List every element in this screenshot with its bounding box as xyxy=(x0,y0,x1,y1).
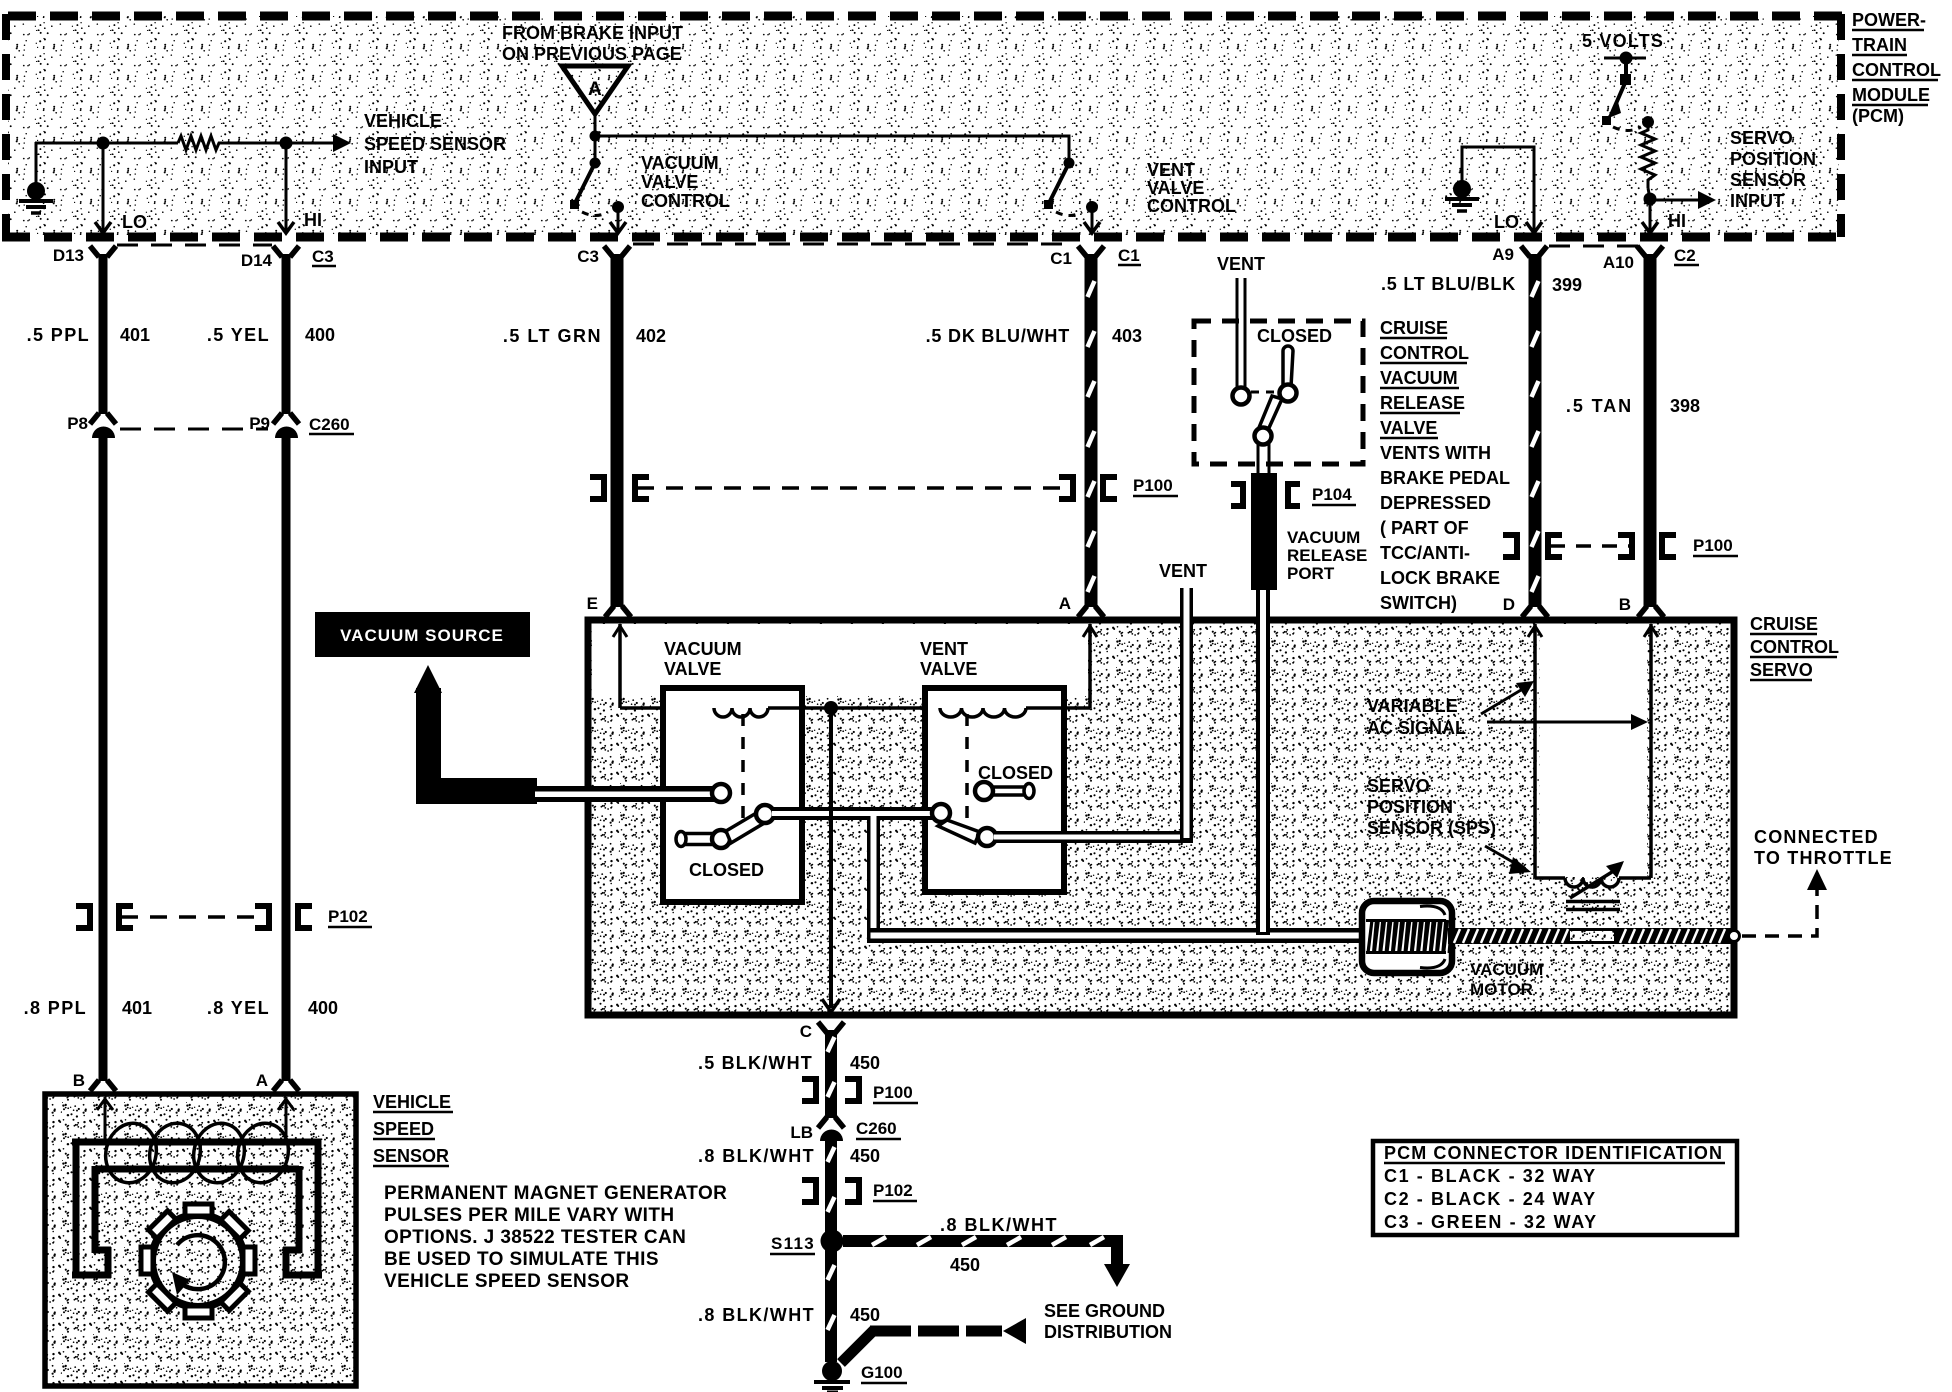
svg-text:CONNECTED: CONNECTED xyxy=(1754,827,1879,847)
label .5 TAN 398 xyxy=(1566,396,1700,416)
svg-text:P102: P102 xyxy=(328,907,368,926)
svg-text:A: A xyxy=(588,79,602,100)
terminal D (servo) xyxy=(1503,595,1548,617)
node (VSS LO junction) xyxy=(97,137,110,150)
svg-text:VALVE: VALVE xyxy=(664,659,721,679)
connector C260 (450) LB xyxy=(790,1117,901,1142)
svg-text:MOTOR: MOTOR xyxy=(1470,980,1533,999)
svg-text:SENSOR: SENSOR xyxy=(373,1146,449,1166)
connector P102 left pair xyxy=(76,906,372,928)
vent tube (release valve) xyxy=(1233,278,1250,405)
label VARIABLE AC SIGNAL xyxy=(1367,696,1466,738)
svg-text:LOCK BRAKE: LOCK BRAKE xyxy=(1380,568,1500,588)
arrow SPS to potentiometer xyxy=(1485,846,1531,874)
wire branch down xyxy=(594,136,597,160)
wire 401 lower (.8 PPL) xyxy=(99,437,108,1081)
svg-text:SPEED: SPEED xyxy=(373,1119,434,1139)
svg-text:VALVE: VALVE xyxy=(1147,178,1204,198)
label SEE GROUND DISTRIBUTION xyxy=(1044,1301,1172,1342)
label .8 BLK/WHT 450 (upper) xyxy=(698,1146,880,1166)
label CRUISE CONTROL SERVO xyxy=(1750,614,1839,680)
svg-text:B: B xyxy=(73,1071,85,1090)
arrowhead HI xyxy=(278,222,294,233)
svg-text:.5 TAN: .5 TAN xyxy=(1566,396,1633,416)
svg-text:C3: C3 xyxy=(577,247,599,266)
svg-text:LB: LB xyxy=(790,1123,813,1142)
see ground distribution dashed wire xyxy=(841,1318,1026,1363)
wire B internal (VSS) xyxy=(97,1097,113,1140)
arrowhead C1 out xyxy=(1084,222,1100,233)
switch vacuum valve control xyxy=(570,158,624,216)
vacuum valve plunger line xyxy=(741,714,745,828)
vacuum valve switch xyxy=(676,805,774,848)
svg-text:402: 402 xyxy=(636,326,666,346)
wire C over tube crossing xyxy=(829,800,833,832)
wire 400 lower (.8 YEL) xyxy=(282,437,291,1081)
svg-text:P102: P102 xyxy=(873,1181,913,1200)
wire 450 horizontal (.8 BLK/WHT striped) xyxy=(843,1237,1130,1287)
svg-text:.8 BLK/WHT: .8 BLK/WHT xyxy=(698,1146,815,1166)
svg-text:401: 401 xyxy=(122,998,152,1018)
label .8 YEL 400 xyxy=(207,998,338,1018)
vacuum source label box xyxy=(315,612,530,657)
connector link P8-P9 xyxy=(120,428,268,431)
PCM module box (Powertrain Control Module) xyxy=(2,14,1848,237)
connector link A9-A10 xyxy=(1549,245,1638,248)
svg-text:RELEASE: RELEASE xyxy=(1380,393,1465,413)
svg-text:AC SIGNAL: AC SIGNAL xyxy=(1367,718,1466,738)
svg-text:LO: LO xyxy=(1494,212,1519,232)
cruise control servo box xyxy=(588,620,1734,1015)
svg-text:VEHICLE: VEHICLE xyxy=(364,111,442,131)
svg-text:C260: C260 xyxy=(309,415,350,434)
svg-text:D: D xyxy=(1503,595,1515,614)
svg-text:VACUUM: VACUUM xyxy=(664,639,742,659)
svg-text:CRUISE: CRUISE xyxy=(1380,318,1448,338)
label FROM BRAKE INPUT ON PREVIOUS PAGE xyxy=(502,23,683,64)
PCM connector identification box xyxy=(1373,1141,1737,1235)
svg-text:C1: C1 xyxy=(1050,249,1072,268)
svg-text:CONTROL: CONTROL xyxy=(1750,637,1839,657)
connector link C3-C1 xyxy=(633,243,1075,246)
svg-text:.5 PPL: .5 PPL xyxy=(27,325,90,345)
svg-text:SERVO: SERVO xyxy=(1367,776,1430,796)
svg-text:VALVE: VALVE xyxy=(641,172,698,192)
svg-text:PCM CONNECTOR IDENTIFICATION: PCM CONNECTOR IDENTIFICATION xyxy=(1384,1143,1723,1163)
connector P100 (450) xyxy=(802,1079,918,1103)
svg-text:OPTIONS. J 38522 TESTER CAN: OPTIONS. J 38522 TESTER CAN xyxy=(384,1227,686,1248)
svg-text:399: 399 xyxy=(1552,275,1582,295)
wire HI (right) down xyxy=(1649,200,1652,231)
svg-text:450: 450 xyxy=(850,1053,880,1073)
VSS magnet yoke xyxy=(72,1139,322,1278)
wire node to arrow xyxy=(286,142,336,145)
wire node to resistor xyxy=(103,142,178,145)
svg-text:.5 LT BLU/BLK: .5 LT BLU/BLK xyxy=(1381,274,1516,294)
wire ground to LO right xyxy=(1462,147,1534,231)
connector P8 xyxy=(67,413,116,438)
svg-text:398: 398 xyxy=(1670,396,1700,416)
tube release port to motor line xyxy=(1256,590,1270,935)
arrow SPS input label xyxy=(1698,191,1716,209)
svg-text:HI: HI xyxy=(1668,211,1686,231)
5V supply rail xyxy=(1604,57,1646,60)
label CRUISE CONTROL VACUUM RELEASE VALVE description xyxy=(1380,318,1510,613)
svg-text:SEE GROUND: SEE GROUND xyxy=(1044,1301,1165,1321)
wire node to vent coil xyxy=(831,706,940,710)
terminal B (VSS) xyxy=(73,1071,116,1091)
svg-text:C3: C3 xyxy=(312,247,334,266)
wire 403 (.5 DK BLU/WHT striped) xyxy=(1088,254,1095,607)
svg-text:SERVO: SERVO xyxy=(1730,128,1793,148)
svg-text:CRUISE: CRUISE xyxy=(1750,614,1818,634)
svg-text:450: 450 xyxy=(950,1255,980,1275)
terminal A (servo) xyxy=(1059,594,1104,617)
svg-text:HI: HI xyxy=(304,210,322,230)
svg-text:450: 450 xyxy=(850,1305,880,1325)
svg-text:VENT: VENT xyxy=(1159,561,1207,581)
svg-text:C260: C260 xyxy=(856,1119,897,1138)
svg-text:CLOSED: CLOSED xyxy=(1257,326,1332,346)
svg-text:VEHICLE SPEED SENSOR: VEHICLE SPEED SENSOR xyxy=(384,1271,630,1292)
vehicle speed sensor box xyxy=(45,1094,356,1386)
wire HI down xyxy=(285,143,288,231)
svg-text:POSITION: POSITION xyxy=(1730,149,1816,169)
wire E internal xyxy=(613,624,714,708)
svg-text:( PART OF: ( PART OF xyxy=(1380,518,1469,538)
svg-text:C1 - BLACK - 32 WAY: C1 - BLACK - 32 WAY xyxy=(1384,1166,1597,1186)
svg-text:D14: D14 xyxy=(241,251,273,270)
svg-text:S113: S113 xyxy=(771,1234,815,1253)
terminal E xyxy=(587,594,631,617)
label .8 PPL 401 xyxy=(24,998,152,1018)
terminal A10 / C2 xyxy=(1603,246,1699,272)
label VACUUM VALVE (solenoid) xyxy=(664,639,742,679)
svg-text:VENT: VENT xyxy=(920,639,968,659)
arrowhead LO xyxy=(95,222,111,233)
terminal C (servo) xyxy=(800,1022,844,1041)
wire 402 (.5 LT GRN) xyxy=(611,254,624,607)
svg-text:P100: P100 xyxy=(873,1083,913,1102)
arrowhead D internal xyxy=(1528,626,1542,637)
tube branch to motor xyxy=(867,812,1365,943)
label VACUUM VALVE CONTROL xyxy=(641,153,730,211)
vent valve box xyxy=(925,688,1064,892)
arrowhead B internal xyxy=(1644,626,1658,637)
vacuum motor xyxy=(1362,901,1452,973)
svg-text:SERVO: SERVO xyxy=(1750,660,1813,680)
svg-text:C1: C1 xyxy=(1118,246,1140,265)
svg-text:INPUT: INPUT xyxy=(1730,191,1784,211)
throttle rod xyxy=(1448,928,1740,944)
svg-text:MODULE: MODULE xyxy=(1852,85,1930,105)
tube vent valve to vent outlet xyxy=(994,831,1192,843)
svg-text:BE USED TO SIMULATE THIS: BE USED TO SIMULATE THIS xyxy=(384,1249,659,1270)
arrowhead C3 out xyxy=(610,222,626,233)
svg-text:400: 400 xyxy=(308,998,338,1018)
splice S113 xyxy=(770,1230,844,1255)
ground G100 xyxy=(814,1361,907,1392)
svg-text:C2 - BLACK - 24 WAY: C2 - BLACK - 24 WAY xyxy=(1384,1189,1597,1209)
terminal C1 (vent valve control) xyxy=(1050,246,1141,268)
servo position sensor potentiometer xyxy=(1535,861,1651,910)
wire A internal xyxy=(1026,624,1097,708)
label .5 LT GRN 402 xyxy=(503,326,666,346)
svg-text:DISTRIBUTION: DISTRIBUTION xyxy=(1044,1322,1172,1342)
wire 450 seg1 (.5 BLK/WHT striped) xyxy=(828,1030,835,1118)
svg-text:A9: A9 xyxy=(1492,245,1514,264)
svg-text:B: B xyxy=(1619,595,1631,614)
arrowhead HI right xyxy=(1642,222,1658,233)
svg-text:INPUT: INPUT xyxy=(364,157,418,177)
wire 398 (.5 TAN) xyxy=(1644,254,1657,607)
svg-text:P9: P9 xyxy=(249,414,270,433)
wire ground to node xyxy=(35,142,100,145)
vent valve coil xyxy=(940,708,1026,717)
svg-text:LO: LO xyxy=(122,212,147,232)
wire 401 upper (.5 PPL) xyxy=(99,254,108,414)
wire resistor to node xyxy=(1648,188,1650,199)
wire branch to vent valve control xyxy=(595,136,1069,160)
wire vacuum valve contact down xyxy=(617,210,620,231)
connector P102 (450) xyxy=(802,1180,917,1202)
connector P100 (402-403) xyxy=(590,476,1178,499)
svg-text:VACUUM: VACUUM xyxy=(1380,368,1458,388)
terminal A (VSS) xyxy=(256,1071,299,1091)
wire node to SPS arrow xyxy=(1650,199,1700,202)
tube release valve to port xyxy=(1258,443,1269,474)
svg-text:(PCM): (PCM) xyxy=(1852,106,1904,126)
switch 5V to SPS xyxy=(1602,58,1654,131)
label VEHICLE SPEED SENSOR xyxy=(373,1092,453,1166)
cruise control vacuum release valve box xyxy=(1194,321,1363,464)
wire vent valve contact down xyxy=(1091,210,1094,231)
svg-text:VALVE: VALVE xyxy=(920,659,977,679)
connector link D13-D14 xyxy=(117,244,272,247)
node (VSS HI junction) xyxy=(280,137,293,150)
svg-text:RELEASE: RELEASE xyxy=(1287,546,1367,565)
terminal B (servo) xyxy=(1619,595,1664,617)
svg-text:VENT: VENT xyxy=(1217,254,1265,274)
svg-text:A: A xyxy=(1059,594,1071,613)
svg-text:VACUUM: VACUUM xyxy=(641,153,719,173)
svg-text:5 VOLTS: 5 VOLTS xyxy=(1582,31,1664,51)
vent tube (servo) xyxy=(1180,588,1193,843)
tube vacuum valve to vent valve xyxy=(772,807,934,820)
release valve switch xyxy=(1251,346,1297,445)
VSS pickup coil xyxy=(99,1118,294,1188)
ground (PCM left internal) xyxy=(19,142,53,213)
label CONNECTED TO THROTTLE xyxy=(1754,827,1893,868)
label SERVO POSITION SENSOR INPUT xyxy=(1730,128,1816,211)
off-page triangle A xyxy=(562,66,628,114)
svg-text:SPEED SENSOR: SPEED SENSOR xyxy=(364,134,506,154)
label SERVO POSITION SENSOR (SPS) xyxy=(1367,776,1496,838)
connector P9 / C260 xyxy=(249,413,354,438)
vent valve switch xyxy=(932,782,1034,846)
wire coil to node xyxy=(768,706,831,710)
terminal C3 (vacuum valve control) xyxy=(577,246,630,266)
label .5 BLK/WHT 450 xyxy=(698,1053,880,1073)
wire B internal xyxy=(1649,624,1653,878)
svg-text:.5 LT GRN: .5 LT GRN xyxy=(503,326,602,346)
wire 450 seg3 (.8 BLK/WHT striped) xyxy=(828,1250,835,1362)
node SPS input xyxy=(1644,193,1657,206)
connector P100 (399-398) xyxy=(1503,535,1738,557)
svg-text:VEHICLE: VEHICLE xyxy=(373,1092,451,1112)
svg-text:P100: P100 xyxy=(1693,536,1733,555)
svg-text:P100: P100 xyxy=(1133,476,1173,495)
label .5 PPL 401 xyxy=(27,325,150,345)
label VACUUM MOTOR xyxy=(1470,960,1543,999)
svg-text:C: C xyxy=(800,1022,812,1041)
svg-text:VENTS WITH: VENTS WITH xyxy=(1380,443,1491,463)
label .5 LT BLU/BLK 399 xyxy=(1381,274,1582,295)
arrowhead LO right xyxy=(1526,222,1542,233)
svg-text:PULSES PER MILE VARY WITH: PULSES PER MILE VARY WITH xyxy=(384,1205,674,1226)
svg-text:P104: P104 xyxy=(1312,485,1352,504)
vacuum source pipe xyxy=(414,665,537,804)
svg-text:.5 BLK/WHT: .5 BLK/WHT xyxy=(698,1053,813,1073)
vacuum source tube to valve xyxy=(535,784,730,802)
resistor SPS pull-up xyxy=(1641,126,1655,188)
ground (PCM right internal) xyxy=(1445,147,1479,211)
svg-text:CLOSED: CLOSED xyxy=(978,763,1053,783)
svg-text:FROM BRAKE INPUT: FROM BRAKE INPUT xyxy=(502,23,683,43)
svg-text:CONTROL: CONTROL xyxy=(1147,196,1236,216)
svg-text:A10: A10 xyxy=(1603,253,1634,272)
arrow variable AC to B wire xyxy=(1487,714,1648,730)
svg-text:400: 400 xyxy=(305,325,335,345)
arrow to VSS input label xyxy=(333,134,351,152)
svg-text:450: 450 xyxy=(850,1146,880,1166)
svg-text:.8 BLK/WHT: .8 BLK/WHT xyxy=(940,1215,1058,1235)
resistor (VSS input, PCM internal) xyxy=(178,136,221,150)
svg-text:VARIABLE: VARIABLE xyxy=(1367,696,1458,716)
connector P104 xyxy=(1231,484,1356,506)
connected to throttle dashed arrow xyxy=(1742,869,1827,936)
svg-text:.5 DK BLU/WHT: .5 DK BLU/WHT xyxy=(926,326,1070,346)
label VENT VALVE (solenoid) xyxy=(920,639,977,679)
svg-text:SENSOR (SPS): SENSOR (SPS) xyxy=(1367,818,1496,838)
svg-text:C3 - GREEN - 32 WAY: C3 - GREEN - 32 WAY xyxy=(1384,1212,1598,1232)
label VSS note xyxy=(384,1183,727,1292)
label .5 DK BLU/WHT 403 xyxy=(926,326,1142,346)
svg-text:BRAKE PEDAL: BRAKE PEDAL xyxy=(1380,468,1510,488)
svg-text:VALVE: VALVE xyxy=(1380,418,1437,438)
svg-text:TRAIN: TRAIN xyxy=(1852,35,1907,55)
svg-text:.8 PPL: .8 PPL xyxy=(24,998,87,1018)
wire triangle to node xyxy=(594,114,597,136)
svg-text:PORT: PORT xyxy=(1287,564,1335,583)
wire resistor to node xyxy=(221,142,286,145)
svg-text:TO THROTTLE: TO THROTTLE xyxy=(1754,848,1893,868)
vacuum valve coil xyxy=(714,708,768,717)
label .8 BLK/WHT 450 (lower) xyxy=(698,1305,880,1325)
svg-text:CONTROL: CONTROL xyxy=(641,191,730,211)
svg-text:P8: P8 xyxy=(67,414,88,433)
svg-text:G100: G100 xyxy=(861,1363,903,1382)
vacuum valve box xyxy=(663,688,802,902)
label .5 YEL 400 xyxy=(207,325,335,345)
svg-text:TCC/ANTI-: TCC/ANTI- xyxy=(1380,543,1470,563)
label VEHICLE SPEED SENSOR INPUT xyxy=(364,111,506,177)
terminal D13 xyxy=(53,246,116,265)
svg-text:PERMANENT MAGNET GENERATOR: PERMANENT MAGNET GENERATOR xyxy=(384,1183,727,1204)
PCM label xyxy=(1852,10,1941,126)
svg-text:.8 YEL: .8 YEL xyxy=(207,998,270,1018)
wire LO down xyxy=(102,143,105,231)
svg-text:.5 YEL: .5 YEL xyxy=(207,325,270,345)
svg-text:POWER-: POWER- xyxy=(1852,10,1926,30)
node brake input branch xyxy=(590,131,601,142)
svg-text:401: 401 xyxy=(120,325,150,345)
node servo common xyxy=(824,701,838,715)
svg-text:.8 BLK/WHT: .8 BLK/WHT xyxy=(698,1305,815,1325)
svg-text:DEPRESSED: DEPRESSED xyxy=(1380,493,1491,513)
wire 400 upper (.5 YEL) xyxy=(282,254,291,414)
wire D internal xyxy=(1533,624,1537,878)
svg-text:A: A xyxy=(256,1071,268,1090)
svg-text:ON PREVIOUS PAGE: ON PREVIOUS PAGE xyxy=(502,44,682,64)
svg-text:CONTROL: CONTROL xyxy=(1852,60,1941,80)
wire 450 seg2 (.8 BLK/WHT striped) xyxy=(828,1140,835,1232)
svg-text:VACUUM: VACUUM xyxy=(1287,528,1360,547)
svg-text:SWITCH): SWITCH) xyxy=(1380,593,1457,613)
svg-text:CLOSED: CLOSED xyxy=(689,860,764,880)
svg-text:VENT: VENT xyxy=(1147,160,1195,180)
wire 399 (.5 LT BLU/BLK striped) xyxy=(1532,254,1539,607)
switch vent valve control xyxy=(1044,158,1098,216)
wire A internal (VSS) xyxy=(278,1097,294,1140)
wire C internal xyxy=(822,708,840,1012)
svg-text:VACUUM: VACUUM xyxy=(1470,960,1543,979)
label VENT VALVE CONTROL xyxy=(1147,160,1236,216)
vacuum release port bar xyxy=(1251,473,1277,590)
svg-text:VACUUM SOURCE: VACUUM SOURCE xyxy=(340,626,504,645)
vent valve plunger line xyxy=(965,714,969,828)
svg-text:CONTROL: CONTROL xyxy=(1380,343,1469,363)
terminal A9 xyxy=(1492,245,1547,264)
svg-text:E: E xyxy=(587,594,598,613)
arrow variable AC to D wire xyxy=(1481,681,1534,714)
svg-text:SENSOR: SENSOR xyxy=(1730,170,1806,190)
svg-text:C2: C2 xyxy=(1674,246,1696,265)
svg-text:403: 403 xyxy=(1112,326,1142,346)
VSS rotor xyxy=(141,1204,255,1318)
terminal D14 / C3 xyxy=(241,246,336,270)
svg-text:POSITION: POSITION xyxy=(1367,797,1453,817)
label VACUUM RELEASE PORT xyxy=(1287,528,1367,583)
svg-text:D13: D13 xyxy=(53,246,84,265)
node 5V xyxy=(1620,52,1633,65)
